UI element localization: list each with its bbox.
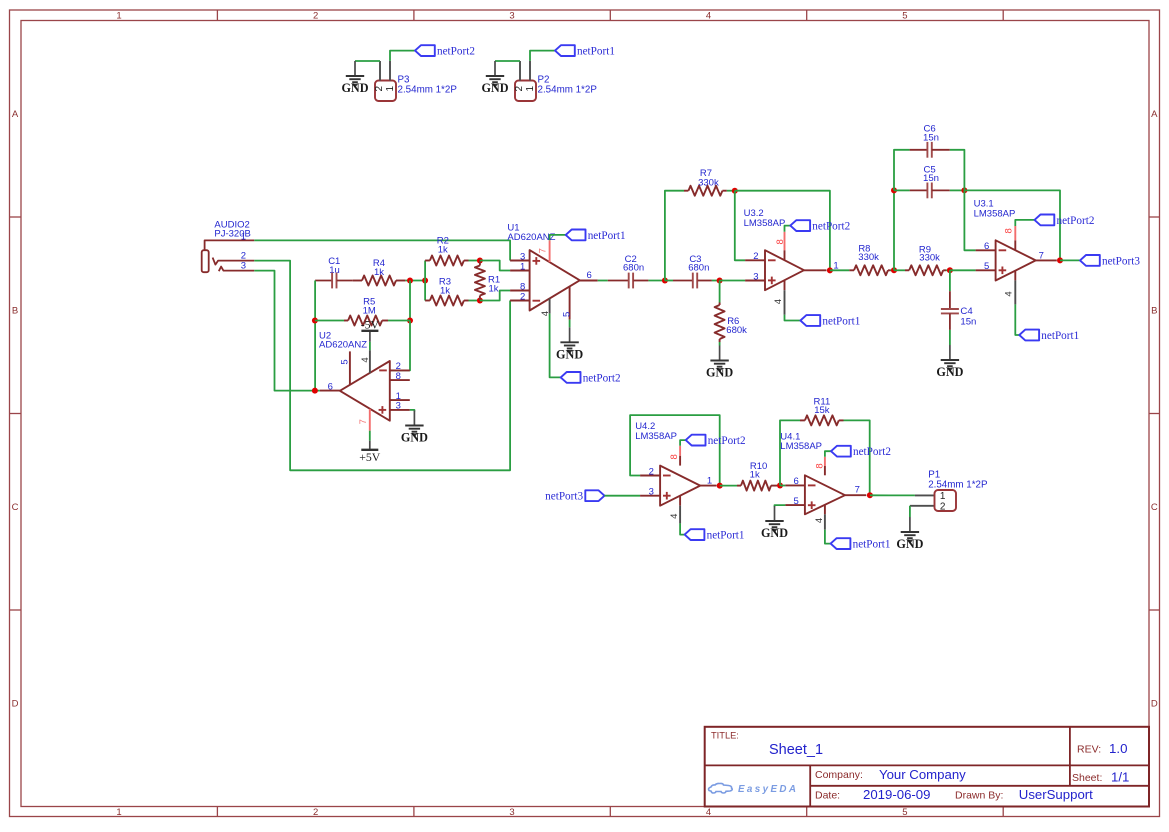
svg-text:C: C	[12, 502, 19, 513]
svg-text:Sheet_1: Sheet_1	[769, 742, 823, 758]
svg-text:3: 3	[509, 10, 514, 21]
svg-text:netPort1: netPort1	[707, 530, 745, 542]
U3.1 pin 5 lead	[976, 269, 996, 271]
title block	[705, 727, 1149, 807]
node U3.2 pin1	[827, 267, 833, 273]
net flag P3 netPort2	[415, 45, 475, 57]
wire riser R4 node to R5 right	[409, 281, 411, 321]
op-amp U4.1 LM358AP	[780, 432, 845, 515]
P3 pin 2 lead	[379, 61, 381, 81]
svg-text:netPort3: netPort3	[1102, 255, 1140, 267]
svg-text:330k: 330k	[919, 253, 940, 264]
wire R10 to node	[777, 485, 780, 487]
svg-text:6: 6	[794, 476, 799, 487]
svg-text:1: 1	[707, 475, 712, 486]
svg-text:8: 8	[396, 371, 401, 382]
wire audio pin2 to U1 pin2 (bottom loop)	[254, 261, 510, 471]
U3.1 pin 7 output lead	[1036, 259, 1057, 261]
U4.1 pin 8 lead to netPort2	[824, 466, 826, 475]
resistor R10 1k	[737, 461, 777, 490]
wire P2 pin1 to netPort1	[530, 51, 555, 61]
node R3/R1 bottom	[477, 298, 483, 304]
wire node to U3.1 pin5	[950, 269, 976, 271]
net flag U3.1 netPort3 output	[1080, 255, 1140, 267]
net flag U1 netPort2	[561, 372, 621, 384]
wire node to U3.2 pin3	[720, 280, 746, 282]
svg-text:4: 4	[1004, 291, 1015, 296]
net flag bottom netPort3 input	[545, 490, 604, 502]
svg-text:3: 3	[396, 401, 401, 412]
node U4.2 pin1	[717, 483, 723, 489]
svg-text:3: 3	[241, 261, 246, 272]
wire C6 loop right	[950, 150, 965, 191]
svg-text:7: 7	[358, 419, 369, 424]
ground at P3	[341, 61, 368, 95]
svg-text:1.0: 1.0	[1109, 741, 1128, 756]
svg-text:1k: 1k	[489, 284, 499, 295]
ground at P1 pin2	[896, 517, 923, 551]
U1 pin 1 lead	[510, 270, 529, 272]
wire C6 loop left	[894, 150, 910, 191]
svg-text:5: 5	[984, 261, 989, 272]
wire U3.2 pin1 to R8	[830, 269, 849, 271]
net flag U3.2 netPort2	[790, 220, 850, 232]
wire R5 right	[388, 320, 410, 322]
connector P3 (2.54mm 1*2P)	[375, 81, 396, 102]
svg-text:1: 1	[385, 85, 396, 91]
U4.1 pin 6 lead	[785, 484, 805, 486]
wire C3 to node	[712, 280, 720, 282]
wire C5/C6 node to U3.1 pin7	[964, 190, 1060, 260]
svg-text:3: 3	[753, 271, 758, 282]
wire node to C3	[665, 280, 673, 282]
svg-text:4: 4	[706, 10, 711, 21]
resistor R6 680k (vertical)	[715, 303, 748, 343]
svg-text:UserSupport: UserSupport	[1019, 787, 1093, 802]
svg-text:2.54mm 1*2P: 2.54mm 1*2P	[928, 480, 988, 491]
P1 pin 1 lead	[915, 494, 935, 496]
svg-text:LM358AP: LM358AP	[974, 209, 1016, 220]
svg-text:netPort2: netPort2	[583, 372, 621, 384]
resistor R3 1k	[425, 276, 468, 305]
svg-text:6: 6	[587, 270, 592, 281]
svg-text:GND: GND	[706, 366, 733, 380]
svg-text:4: 4	[706, 807, 711, 818]
wire node down to C4	[949, 270, 951, 291]
ground at U4.1 pin5	[761, 506, 788, 540]
wire P2 pin2 to GND	[495, 60, 520, 62]
ground at C4	[936, 345, 963, 379]
U2 pin 5 stub	[349, 351, 351, 385]
ground at R6	[706, 346, 733, 380]
svg-text:6: 6	[328, 381, 333, 392]
svg-text:5: 5	[340, 359, 351, 364]
U4.2 pin 8 lead to netPort2	[679, 456, 681, 466]
resistor R2 1k	[425, 236, 468, 266]
svg-text:330k: 330k	[858, 252, 879, 263]
svg-text:4: 4	[814, 518, 825, 523]
wire U4.2 feedback loop pin2 to pin1	[630, 415, 720, 486]
svg-text:8: 8	[669, 454, 680, 459]
node C5 left	[891, 187, 897, 193]
capacitor C4 15n (vertical)	[941, 291, 977, 330]
svg-text:2: 2	[313, 807, 318, 818]
svg-text:1u: 1u	[329, 265, 340, 276]
U2 pin 8 lead (stub)	[390, 379, 410, 381]
svg-text:D: D	[1151, 699, 1158, 710]
net flag U3.1 netPort1	[1019, 330, 1079, 342]
node C2/C3/R7	[662, 278, 668, 284]
svg-text:7: 7	[538, 248, 549, 253]
wire R7 to node	[727, 190, 735, 192]
U1 pin 2 lead	[510, 300, 529, 302]
svg-text:1M: 1M	[363, 305, 376, 316]
capacitor C1 1u	[315, 256, 353, 288]
U3.1 pin 4 lead to netPort1	[1014, 270, 1016, 280]
wire U1 out to C2	[598, 280, 608, 282]
svg-text:GND: GND	[896, 537, 923, 551]
svg-text:B: B	[12, 306, 18, 317]
U3.1 pin 8 lead to netPort2	[1014, 240, 1016, 250]
connector P2 (2.54mm 1*2P)	[515, 81, 536, 102]
svg-text:GND: GND	[341, 81, 368, 95]
resistor R4 1k	[353, 258, 406, 285]
op-amp U3.1 LM358AP	[974, 199, 1036, 281]
node U4.1 pin7	[867, 492, 873, 498]
EasyEDA logo	[709, 783, 733, 793]
svg-text:LM358AP: LM358AP	[744, 218, 786, 229]
svg-text:3: 3	[509, 807, 514, 818]
node R2/R1 top	[477, 258, 483, 264]
svg-text:A: A	[1151, 109, 1158, 120]
svg-text:15n: 15n	[923, 173, 939, 184]
svg-text:netPort1: netPort1	[822, 315, 860, 327]
wire C5 right	[950, 189, 965, 191]
resistor R7 330k	[684, 168, 727, 196]
svg-text:GND: GND	[936, 365, 963, 379]
svg-text:8: 8	[1004, 228, 1015, 233]
wire C5/C6 node down to U3.1 pin6	[964, 190, 975, 250]
audio jack AUDIO2 PJ-320B	[202, 219, 255, 272]
net flag U1 netPort1	[566, 230, 626, 242]
wire R5 right node down to U2 pin2	[390, 321, 410, 371]
svg-text:GND: GND	[556, 348, 583, 362]
svg-text:2: 2	[520, 291, 525, 302]
ground at U2 pin3	[401, 411, 428, 445]
U4.2 pin 3 lead	[640, 495, 660, 497]
wire U4.1 pin7 to P1 pin1	[870, 494, 915, 496]
svg-text:Date:: Date:	[815, 789, 840, 801]
svg-text:netPort2: netPort2	[708, 435, 746, 447]
U2 pin 3 lead	[390, 409, 410, 411]
wire node up to C5	[893, 190, 895, 270]
svg-text:7: 7	[1039, 250, 1044, 261]
net flag U3.2 netPort1	[800, 315, 860, 327]
wire node down to U3.2 pin2	[735, 191, 745, 261]
svg-text:680n: 680n	[688, 262, 709, 273]
U2 pin 1 lead (stub)	[390, 399, 410, 401]
net flag P2 netPort1	[555, 45, 615, 57]
svg-text:2: 2	[514, 85, 525, 91]
svg-text:2: 2	[313, 10, 318, 21]
U1 pin 5 lead to GND	[569, 286, 571, 319]
U2 pin 7 lead to +5V	[369, 409, 371, 431]
wire P1 pin2 to GND	[909, 506, 911, 517]
svg-text:REV:: REV:	[1077, 743, 1101, 755]
U2 pin 6 lead (output)	[320, 390, 340, 392]
wire node up to R11	[780, 420, 800, 485]
wire C4 to GND	[949, 330, 951, 345]
svg-text:4: 4	[773, 299, 784, 304]
op-amp U3.2 LM358AP	[744, 208, 804, 290]
wire P3 pin1 to netPort2	[390, 51, 415, 61]
svg-text:Sheet:: Sheet:	[1072, 772, 1102, 784]
U3.2 pin 4 lead to netPort1	[784, 280, 786, 290]
wire R8 to node	[891, 269, 895, 271]
U1 pin 3 lead	[510, 260, 529, 262]
wire R6 to GND	[719, 342, 721, 346]
svg-text:-5V: -5V	[361, 317, 380, 331]
svg-text:netPort1: netPort1	[1041, 330, 1079, 342]
wire node to U4.1 pin6	[780, 485, 785, 487]
svg-text:C: C	[1151, 502, 1158, 513]
svg-text:A: A	[12, 109, 19, 120]
U1 pin 6 output lead	[580, 280, 598, 282]
svg-text:1: 1	[241, 232, 246, 243]
wire R2 right to node	[469, 260, 480, 262]
svg-text:netPort2: netPort2	[812, 221, 850, 233]
svg-text:netPort3: netPort3	[545, 491, 583, 503]
U1 pin 4 lead to netPort2	[549, 298, 551, 313]
svg-text:Company:: Company:	[815, 769, 863, 781]
U2 pin 4 lead to -5V	[369, 350, 371, 373]
svg-text:2: 2	[940, 501, 946, 512]
svg-text:680k: 680k	[726, 325, 747, 336]
resistor R9 330k	[905, 245, 946, 276]
svg-text:2019-06-09: 2019-06-09	[863, 787, 930, 802]
svg-text:TITLE:: TITLE:	[711, 731, 739, 741]
connector P1 (2.54mm 1*2P)	[935, 490, 957, 512]
U4.1 pin 4 lead to netPort1	[824, 505, 826, 514]
node R4/R5 riser	[407, 278, 413, 284]
node C3/R6/U3.2	[717, 278, 723, 284]
U3.2 pin 3 lead	[745, 280, 765, 282]
svg-text:netPort2: netPort2	[853, 446, 891, 458]
svg-text:2.54mm 1*2P: 2.54mm 1*2P	[538, 84, 598, 95]
svg-text:B: B	[1151, 306, 1157, 317]
node R10/R11/U4.1 pin6	[777, 483, 783, 489]
U4.1 pin 5 lead	[785, 504, 805, 506]
wire C2 to node	[648, 280, 665, 282]
op-amp U4.2 LM358AP	[635, 421, 700, 506]
net flag U4.2 netPort2	[686, 435, 746, 447]
capacitor C5 15n	[910, 164, 950, 198]
wire R3 node to U1 pin8	[480, 291, 510, 301]
svg-text:2: 2	[374, 85, 385, 91]
node U3.1 pin7	[1057, 257, 1063, 263]
wire node over to U3.2 pin1	[735, 191, 830, 271]
ground at P2	[481, 61, 508, 95]
P1 pin 2 lead	[910, 505, 935, 507]
svg-text:4: 4	[669, 514, 680, 519]
svg-text:LM358AP: LM358AP	[635, 431, 677, 442]
U2 pin 2 lead	[390, 369, 410, 371]
wire U4.1 pin5 to GND	[775, 505, 786, 506]
svg-text:2.54mm 1*2P: 2.54mm 1*2P	[398, 84, 458, 95]
svg-text:C4: C4	[960, 306, 973, 317]
wire U4.2 pin1 to R10	[720, 485, 737, 487]
node U2 pin6	[312, 388, 318, 394]
U3.1 pin 6 lead	[976, 249, 996, 251]
wire C1 left column	[314, 281, 316, 391]
svg-text:GND: GND	[481, 81, 508, 95]
wire P3 pin2 to GND	[355, 60, 380, 62]
svg-text:15n: 15n	[960, 317, 976, 328]
svg-text:1: 1	[520, 261, 525, 272]
net flag U4.1 netPort1	[831, 538, 891, 550]
wire riser R2/R3	[424, 261, 426, 301]
wire node up to R7	[665, 191, 684, 281]
svg-text:6: 6	[984, 241, 989, 252]
svg-text:EasyEDA: EasyEDA	[738, 784, 798, 795]
node R9/C4/U3.1 pin5	[947, 267, 953, 273]
node R8/R9/C5 riser	[891, 267, 897, 273]
U4.2 pin 4 lead to netPort1	[679, 496, 681, 506]
net flag U4.1 netPort2	[831, 446, 891, 458]
net flag U4.2 netPort1	[685, 529, 745, 541]
U3.2 pin 2 lead	[745, 259, 765, 261]
U1 pin 8 lead	[510, 290, 529, 292]
svg-text:4: 4	[360, 357, 371, 362]
net flag U3.1 netPort2	[1035, 215, 1095, 227]
svg-text:1: 1	[525, 85, 536, 91]
wire U2 pin3 to GND	[410, 410, 415, 412]
svg-text:netPort1: netPort1	[588, 230, 626, 242]
svg-text:2: 2	[649, 466, 654, 477]
svg-text:8: 8	[814, 463, 825, 468]
resistor R11 15k	[800, 397, 844, 426]
U3.2 pin 1 output lead	[804, 269, 827, 271]
node R2/R3 riser	[422, 278, 428, 284]
svg-text:7: 7	[855, 484, 860, 495]
svg-text:1k: 1k	[438, 244, 448, 255]
svg-text:5: 5	[561, 312, 572, 317]
svg-text:netPort1: netPort1	[577, 46, 615, 58]
svg-text:netPort1: netPort1	[853, 539, 891, 551]
svg-text:8: 8	[775, 239, 786, 244]
wire audio pin3 to U2 pin6 node	[254, 271, 320, 391]
U3.2 pin 8 lead to netPort2	[784, 250, 786, 260]
wire node to R6	[719, 281, 721, 303]
svg-text:5: 5	[902, 10, 907, 21]
svg-text:Your Company: Your Company	[879, 767, 966, 782]
op-amp U2 AD620ANZ	[319, 330, 390, 420]
svg-text:1: 1	[116, 10, 121, 21]
node C5/C6 right	[961, 187, 967, 193]
wire R4 to node	[405, 280, 425, 282]
svg-text:1k: 1k	[750, 470, 760, 481]
ground at U1 pin5	[556, 327, 583, 361]
svg-text:+5V: +5V	[359, 450, 381, 464]
svg-text:5: 5	[794, 496, 799, 507]
wire node to R9	[894, 269, 905, 271]
wire R2 node to U1 pin1	[480, 261, 510, 271]
wire R9 to node	[946, 269, 950, 271]
svg-text:15k: 15k	[814, 405, 830, 416]
P2 pin 1 lead	[529, 61, 531, 81]
capacitor C2 680n	[608, 254, 649, 288]
svg-text:5: 5	[902, 807, 907, 818]
resistor R8 330k	[849, 244, 890, 276]
svg-text:Drawn By:: Drawn By:	[955, 789, 1003, 801]
svg-text:1: 1	[116, 807, 121, 818]
wire pin7 node to netPort3	[1060, 259, 1080, 261]
op-amp U1 AD620ANZ	[507, 222, 579, 310]
power flag -5V (U2 pin4)	[361, 317, 380, 331]
U4.1 pin 7 output lead	[845, 494, 866, 496]
node R5 left	[312, 318, 318, 324]
wire R3 right to node	[469, 300, 480, 302]
svg-text:GND: GND	[761, 526, 788, 540]
resistor R1 1k (vertical)	[475, 261, 500, 301]
U4.2 pin 2 lead	[640, 475, 660, 477]
wire audio pin1 to U1 pin3	[254, 240, 510, 260]
svg-text:netPort2: netPort2	[437, 46, 475, 58]
svg-text:AD620ANZ: AD620ANZ	[507, 232, 555, 243]
svg-text:1/1: 1/1	[1111, 770, 1129, 785]
svg-text:15n: 15n	[923, 132, 939, 143]
P3 pin 1 lead	[389, 61, 391, 81]
svg-text:AD620ANZ: AD620ANZ	[319, 339, 367, 350]
capacitor C3 680n	[673, 254, 712, 288]
svg-text:netPort2: netPort2	[1057, 215, 1095, 227]
svg-text:3: 3	[649, 487, 654, 498]
P2 pin 2 lead	[519, 61, 521, 81]
svg-text:D: D	[12, 699, 19, 710]
svg-text:680n: 680n	[623, 262, 644, 273]
U1 pin 7 lead to netPort1	[549, 240, 551, 262]
wire C5 left	[894, 189, 910, 191]
node R7 right	[732, 188, 738, 194]
svg-text:1k: 1k	[374, 267, 384, 278]
resistor R5 1M	[344, 297, 388, 326]
svg-text:2: 2	[753, 251, 758, 262]
wire R11 down to U4.1 pin7 node	[844, 420, 870, 495]
svg-text:LM358AP: LM358AP	[780, 441, 822, 452]
wire netPort3 to U4.2 pin3	[605, 495, 641, 497]
svg-text:GND: GND	[401, 431, 428, 445]
wire R5 left	[315, 320, 344, 322]
capacitor C6 15n	[910, 124, 950, 158]
power flag +5V (U2 pin7)	[359, 450, 381, 464]
U4.2 pin 1 output lead	[700, 485, 716, 487]
node R5 right	[407, 318, 413, 324]
